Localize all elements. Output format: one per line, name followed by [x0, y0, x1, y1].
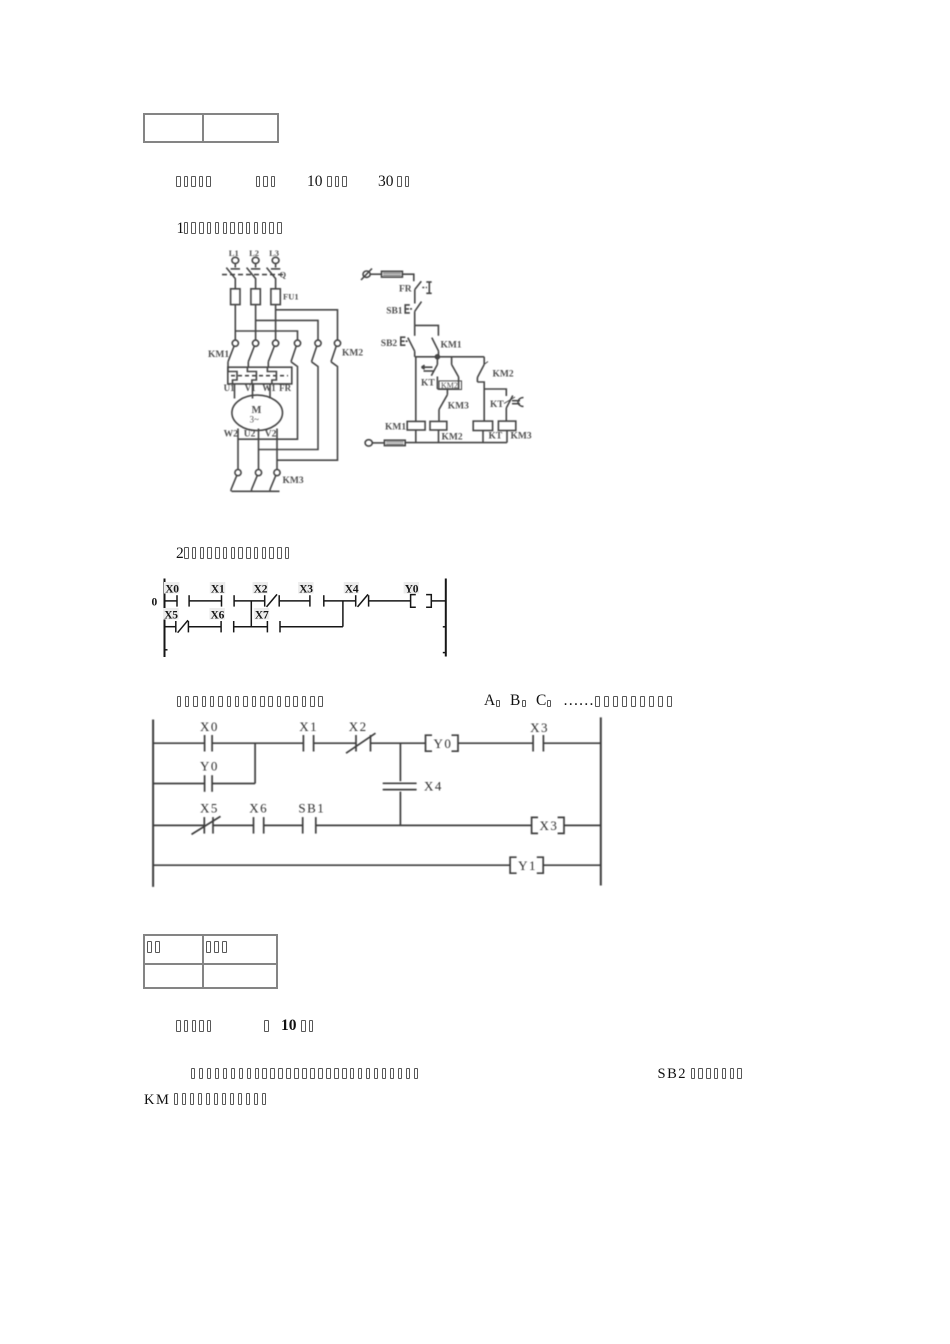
contact X6: [253, 817, 255, 834]
svg-text:KM1: KM1: [208, 350, 229, 360]
svg-text:SB1: SB1: [386, 306, 403, 316]
right power rail: [445, 579, 447, 657]
svg-text:3~: 3~: [250, 415, 260, 425]
contact X5 (NC): [175, 621, 177, 632]
contact X2 (NC): [264, 595, 266, 606]
ladder diagram 1 (PLC software screenshot): [148, 576, 448, 666]
svg-text:X5: X5: [200, 801, 219, 816]
svg-text:X6: X6: [211, 610, 225, 622]
contact X6: [220, 621, 222, 632]
svg-text:KM3: KM3: [511, 431, 532, 441]
svg-text:KM2: KM2: [441, 381, 458, 390]
svg-text:KM3: KM3: [283, 476, 304, 486]
contact X7: [266, 621, 268, 632]
branch vertical: [254, 743, 256, 783]
dashed link of switch Q: [222, 274, 283, 276]
rung 3 wire: [153, 824, 204, 826]
text line: answer options A B C: [177, 696, 182, 708]
svg-text:Y1: Y1: [518, 858, 537, 873]
coil KM1: [407, 421, 425, 430]
svg-text:X2: X2: [349, 719, 368, 734]
X4 vertical contact branch: [399, 743, 401, 781]
svg-text:FR: FR: [279, 383, 291, 393]
svg-text:X1: X1: [211, 584, 225, 596]
svg-text:X3: X3: [530, 720, 549, 735]
control circuit: top terminal: [363, 271, 370, 277]
left rail: [152, 720, 154, 887]
heading: question 1: [177, 220, 185, 238]
rung 4 wire: [153, 864, 510, 866]
svg-text:X4: X4: [345, 584, 359, 596]
svg-text:V1: V1: [245, 383, 256, 393]
svg-text:X1: X1: [299, 719, 318, 734]
rung wires row 1: [165, 600, 178, 602]
end-of-rung nubs: [443, 626, 446, 628]
contact X0: [204, 735, 206, 752]
svg-text:KM1: KM1: [441, 341, 462, 351]
svg-text:Y0: Y0: [434, 736, 453, 751]
svg-text:Y0: Y0: [405, 584, 419, 596]
thermal relay FR heater box: [228, 367, 292, 384]
svg-text:L2: L2: [249, 248, 259, 258]
svg-text:X3: X3: [299, 584, 313, 596]
svg-text:SB2: SB2: [381, 339, 398, 349]
wire KM2 pole 3 to motor terminal: [277, 362, 338, 460]
svg-text:KT: KT: [489, 431, 503, 441]
svg-text:KM2: KM2: [493, 369, 514, 379]
svg-text:0: 0: [152, 596, 158, 608]
svg-text:V2: V2: [265, 430, 277, 440]
circuit: motor control schematic (power + control): [200, 240, 540, 510]
left power rail: [164, 579, 166, 658]
text line: section header with score info: [176, 176, 181, 188]
svg-text:X4: X4: [424, 779, 443, 794]
svg-text:Q: Q: [280, 270, 287, 280]
contact Y0: [204, 775, 206, 792]
SB2 start button (NO): [408, 338, 415, 352]
wire KM2 pole 2 to motor terminal: [259, 362, 319, 450]
paragraph line 2: [144, 1092, 170, 1109]
table: answer table 2x2: [143, 934, 278, 989]
svg-text:FR: FR: [399, 284, 412, 294]
switch Q pole 3: [275, 264, 277, 268]
coil KM2: [430, 421, 447, 430]
svg-text:Y0: Y0: [200, 759, 219, 774]
heading: question 2: [176, 545, 184, 563]
contact X2 NC: [355, 735, 357, 752]
switch Q pole 2: [255, 264, 257, 268]
svg-text:KM3: KM3: [448, 401, 469, 411]
svg-text:X3: X3: [540, 818, 559, 833]
svg-text:U1: U1: [224, 383, 235, 393]
contact X3: [309, 595, 311, 606]
contactor KM1 main contacts: [232, 340, 238, 346]
rung 2 (Y0 self hold): [153, 783, 205, 785]
svg-text:X0: X0: [200, 719, 219, 734]
contact X1: [302, 735, 304, 752]
svg-text:X6: X6: [249, 801, 268, 816]
svg-text:KT: KT: [490, 400, 504, 410]
table: top empty 2-cell table: [143, 113, 279, 143]
coil [Y0]: [426, 735, 433, 751]
fuse FU1 pole 2: [251, 289, 260, 305]
svg-text:L1: L1: [229, 248, 239, 258]
svg-text:KM1: KM1: [385, 422, 406, 432]
left column down to KM1 coil: [415, 357, 417, 422]
coil [X3]: [532, 817, 538, 833]
coil KT: [473, 421, 492, 430]
fuse FU1 pole 3: [271, 289, 280, 305]
FR NC contact: [415, 281, 422, 289]
motor M 3~: [234, 384, 236, 399]
fuse FU1 pole 1: [231, 289, 240, 305]
junction rail: [415, 356, 485, 358]
svg-text:L3: L3: [269, 248, 279, 258]
ladder diagram 2 (scanned): [145, 712, 615, 892]
contact X3: [532, 735, 534, 752]
contactor KM2 main contacts: [294, 340, 300, 346]
wire KM2 pole 1 to motor terminal: [238, 362, 298, 439]
svg-text:KM2: KM2: [342, 349, 363, 359]
contact X0: [176, 595, 178, 606]
contact SB1: [302, 817, 304, 834]
wires motor to KM3: [237, 429, 239, 470]
svg-text:W2: W2: [224, 430, 239, 440]
rung 1 wire: [153, 742, 205, 744]
svg-text:SB1: SB1: [298, 801, 325, 816]
contactor KM3 contacts: [235, 470, 241, 476]
rung wires row 2: [165, 626, 176, 628]
svg-text:U2: U2: [244, 430, 256, 440]
svg-text:X2: X2: [254, 584, 268, 596]
svg-text:FU1: FU1: [283, 292, 299, 302]
coil [Y1]: [510, 857, 516, 873]
bottom rail with fuse and terminal: [405, 442, 507, 444]
boxed KM2 label: [439, 381, 462, 390]
KM3 aux contact (NO): [446, 389, 448, 395]
svg-text:KT: KT: [421, 379, 435, 389]
branch to KT NC delayed: [484, 389, 506, 396]
KM2 NC contact parallel: [451, 357, 453, 365]
svg-text:X7: X7: [255, 610, 269, 622]
coil Y0: [411, 595, 416, 608]
svg-text:X5: X5: [164, 610, 178, 622]
KM1 aux contact (NO): [432, 338, 439, 352]
KT delayed contact branch: [436, 357, 438, 365]
wire: L1 branch to KM2: [235, 331, 297, 340]
star point bar: [232, 490, 280, 492]
split to SB2 / KM1 aux: [415, 325, 439, 335]
svg-text:X0: X0: [165, 584, 179, 596]
switch Q pole 1: [234, 264, 236, 268]
KT NC delayed contact: [506, 396, 513, 409]
control fuse top: [382, 271, 403, 277]
SB1 stop button (NC): [415, 302, 422, 312]
coil KM3: [498, 421, 515, 430]
OR branch verticals: [250, 601, 252, 627]
contact X4 (NC): [355, 595, 357, 606]
contact X1: [221, 595, 223, 606]
contact X5 NC: [203, 817, 205, 834]
KM2 aux NO right branch: [483, 357, 485, 365]
wire: L3 branch to KM2: [276, 310, 338, 340]
svg-text:KM2: KM2: [442, 432, 463, 442]
wire: L2 branch to KM2: [256, 320, 318, 340]
right rail: [600, 717, 602, 885]
paragraph line 1: [191, 1068, 196, 1080]
text line: question score note: [176, 1020, 181, 1032]
